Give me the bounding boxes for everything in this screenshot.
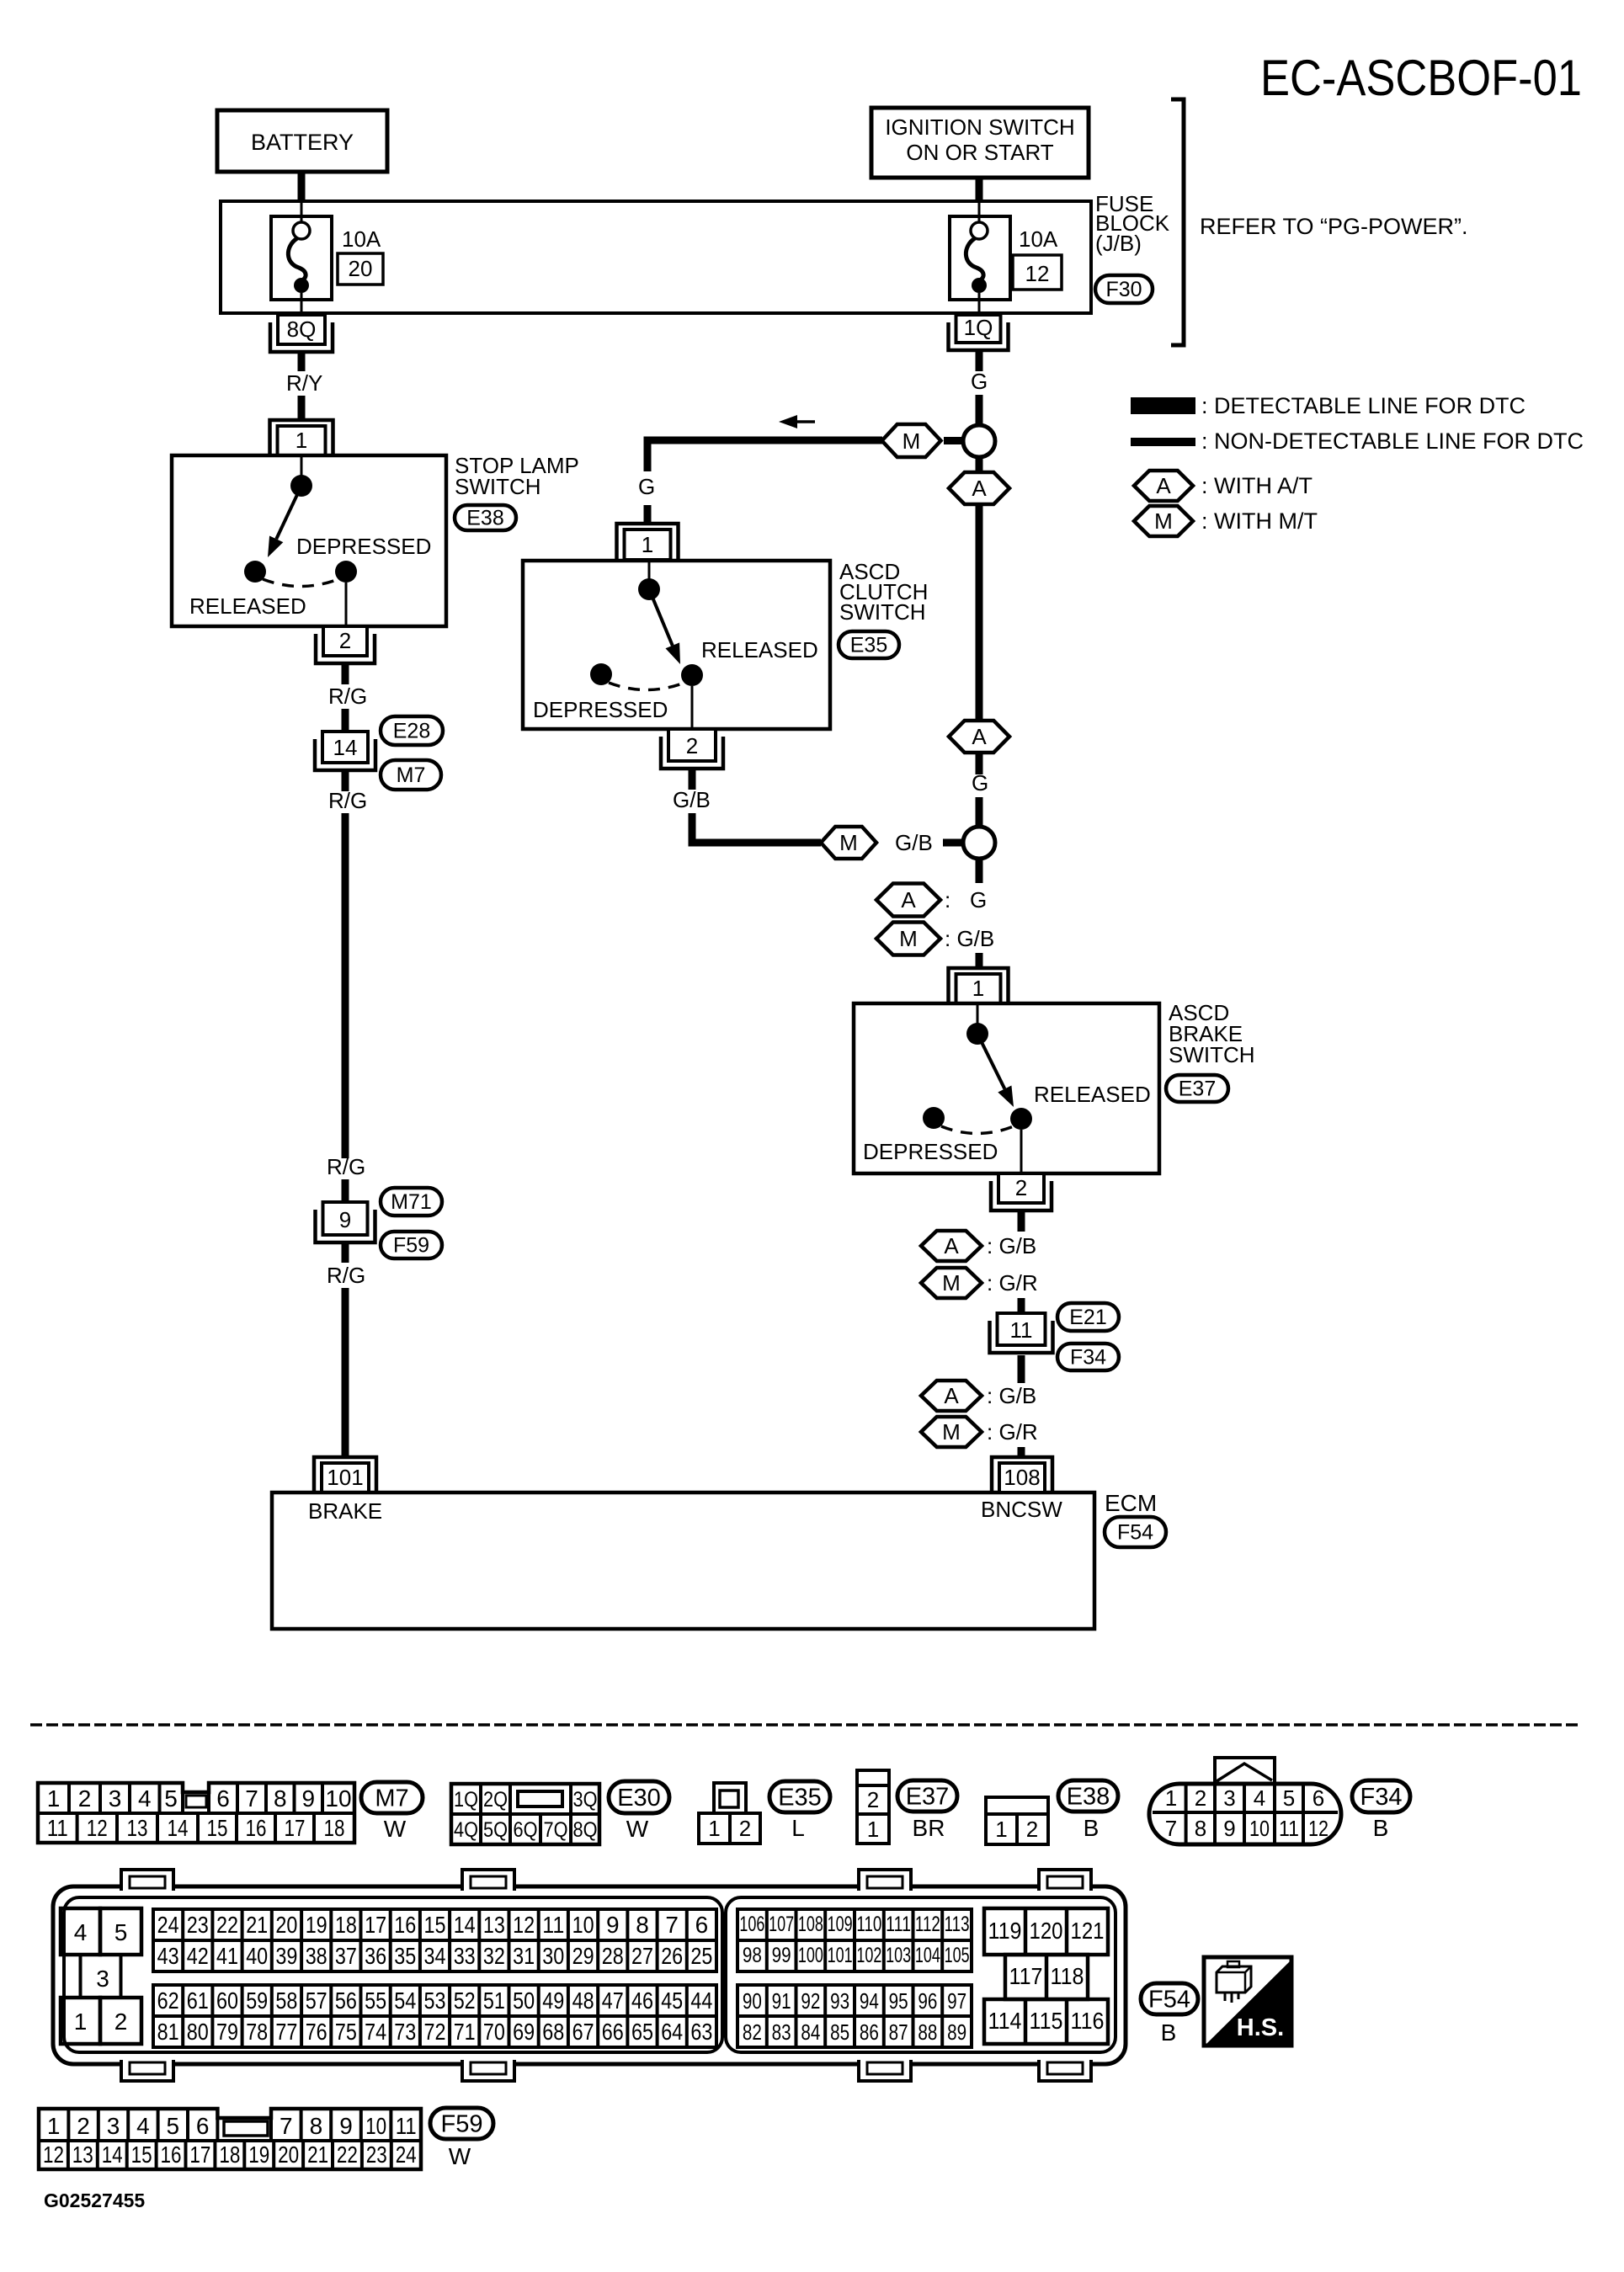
svg-text:34: 34 xyxy=(424,1943,446,1969)
svg-text:112: 112 xyxy=(915,1913,940,1936)
svg-text:11: 11 xyxy=(1010,1317,1033,1343)
hexagon M wire G/R row 2 xyxy=(921,1417,1038,1447)
wire corner to M hexagon xyxy=(647,440,882,471)
svg-text:97: 97 xyxy=(947,1988,966,2014)
svg-text:M: M xyxy=(942,1419,961,1445)
svg-text:1: 1 xyxy=(972,976,984,1001)
svg-text:W: W xyxy=(626,1816,649,1842)
svg-text:120: 120 xyxy=(1030,1918,1063,1944)
connector F30 oval xyxy=(1095,275,1153,303)
svg-text:99: 99 xyxy=(772,1944,791,1967)
svg-text:R/G: R/G xyxy=(328,788,367,813)
wire below connector 9 xyxy=(342,1242,349,1263)
hexagon M/T on branch xyxy=(882,424,941,457)
H.S. mark xyxy=(1204,1957,1291,2046)
stop lamp switch box E38 xyxy=(172,455,446,626)
svg-text:H.S.: H.S. xyxy=(1237,2014,1284,2041)
svg-text:8: 8 xyxy=(1195,1816,1206,1841)
svg-text:57: 57 xyxy=(306,1987,327,2014)
svg-text:1Q: 1Q xyxy=(964,315,993,340)
svg-text:38: 38 xyxy=(306,1943,327,1969)
svg-text:12: 12 xyxy=(87,1815,108,1841)
svg-text:3Q: 3Q xyxy=(573,1788,598,1812)
svg-text:110: 110 xyxy=(856,1913,881,1936)
ASCD brake switch internals xyxy=(863,1003,1151,1173)
svg-text:64: 64 xyxy=(661,2019,683,2045)
hexagon M with wire color G/B xyxy=(876,923,994,955)
svg-text:13: 13 xyxy=(127,1815,148,1841)
svg-text:9: 9 xyxy=(339,1207,351,1232)
ASCD clutch switch label xyxy=(839,559,928,625)
wire below brake connector 2 xyxy=(1018,1210,1025,1232)
wire below hexagon A 2 xyxy=(976,753,983,774)
svg-text:10A: 10A xyxy=(342,226,381,252)
flow arrow xyxy=(779,415,815,428)
svg-text:F54: F54 xyxy=(1148,1986,1190,2013)
svg-text:E35: E35 xyxy=(778,1784,822,1811)
hexagon M/T lower branch xyxy=(821,827,876,859)
svg-text:G02527455: G02527455 xyxy=(44,2190,145,2211)
svg-text:114: 114 xyxy=(988,2008,1022,2034)
svg-text:43: 43 xyxy=(157,1943,179,1969)
svg-text:66: 66 xyxy=(602,2019,624,2045)
svg-text:10: 10 xyxy=(572,1912,594,1938)
svg-text:R/G: R/G xyxy=(327,1263,365,1288)
wire 8Q down xyxy=(298,350,306,371)
svg-text:18: 18 xyxy=(335,1912,357,1938)
wire into ECM BNCSW pin xyxy=(1018,1447,1025,1458)
svg-text:SWITCH: SWITCH xyxy=(455,474,541,499)
svg-text:82: 82 xyxy=(743,2019,762,2045)
svg-text:48: 48 xyxy=(572,1987,594,2014)
connector 8Q xyxy=(270,315,333,352)
svg-text:IGNITION SWITCH: IGNITION SWITCH xyxy=(885,114,1074,140)
svg-text:6: 6 xyxy=(1313,1785,1324,1811)
svg-text:1: 1 xyxy=(296,428,307,453)
svg-text:94: 94 xyxy=(860,1988,879,2014)
svg-text:2Q: 2Q xyxy=(483,1788,508,1812)
svg-text:M7: M7 xyxy=(375,1785,408,1812)
long wire down right side xyxy=(976,504,983,721)
svg-text:G: G xyxy=(970,887,987,913)
svg-text:106: 106 xyxy=(739,1913,764,1936)
svg-text:8: 8 xyxy=(310,2113,323,2139)
connector E35 oval xyxy=(769,1781,830,1812)
svg-text:101: 101 xyxy=(828,1944,853,1967)
svg-text:72: 72 xyxy=(424,2019,446,2045)
wire G into clutch connector xyxy=(644,505,652,525)
svg-text:15: 15 xyxy=(131,2142,152,2168)
fuse 10A 12 xyxy=(950,203,1062,313)
svg-text:7: 7 xyxy=(665,1912,679,1938)
svg-text:83: 83 xyxy=(772,2019,791,2045)
stop lamp switch internals xyxy=(189,455,431,626)
legend with A/T xyxy=(1134,471,1313,501)
svg-text:53: 53 xyxy=(424,1987,446,2014)
svg-text:1: 1 xyxy=(1165,1785,1177,1811)
connector 9 M71/F59 xyxy=(316,1202,375,1242)
svg-text:32: 32 xyxy=(483,1943,505,1969)
svg-text:47: 47 xyxy=(602,1987,624,2014)
svg-text:22: 22 xyxy=(337,2142,358,2168)
svg-text:: G/R: : G/R xyxy=(987,1270,1038,1296)
svg-text:11: 11 xyxy=(542,1912,564,1938)
wire clutch to M hexagon lower xyxy=(692,813,821,843)
svg-text:10A: 10A xyxy=(1019,226,1058,252)
svg-text:67: 67 xyxy=(572,2019,594,2045)
svg-text:100: 100 xyxy=(798,1944,823,1967)
svg-text:17: 17 xyxy=(365,1912,386,1938)
connector 1 ASCD brake switch xyxy=(949,968,1009,1003)
connector E38 pinout xyxy=(986,1797,1048,1844)
svg-text:9: 9 xyxy=(1223,1816,1235,1841)
ECM right grid pins 82-113 xyxy=(737,1909,972,2047)
svg-text:79: 79 xyxy=(216,2019,238,2045)
svg-text:1: 1 xyxy=(708,1816,720,1841)
wire R/G segment xyxy=(342,709,349,732)
svg-text:12: 12 xyxy=(1025,261,1050,286)
svg-text:55: 55 xyxy=(365,1987,386,2014)
svg-text:10: 10 xyxy=(325,1785,351,1812)
svg-text:40: 40 xyxy=(246,1943,268,1969)
svg-text:14: 14 xyxy=(454,1912,476,1938)
svg-text:A: A xyxy=(972,476,987,501)
svg-text:7: 7 xyxy=(280,2113,293,2139)
connector E37 pinout xyxy=(857,1770,889,1844)
svg-text:14: 14 xyxy=(168,1815,189,1841)
svg-text:1: 1 xyxy=(867,1817,879,1842)
svg-text:23: 23 xyxy=(187,1912,209,1938)
svg-text:F59: F59 xyxy=(393,1234,429,1258)
svg-text:49: 49 xyxy=(542,1987,564,2014)
svg-text:16: 16 xyxy=(394,1912,416,1938)
svg-text:117: 117 xyxy=(1009,1963,1043,1989)
svg-text:92: 92 xyxy=(801,1988,820,2014)
svg-text:8: 8 xyxy=(636,1912,649,1938)
connector 2 stop lamp switch xyxy=(316,626,375,663)
svg-text:E37: E37 xyxy=(1179,1077,1216,1101)
svg-text:108: 108 xyxy=(1004,1465,1040,1490)
svg-text:2: 2 xyxy=(739,1816,751,1841)
svg-text:3: 3 xyxy=(1223,1785,1235,1811)
connector M71 oval xyxy=(381,1188,442,1216)
hexagon M wire G/R row 1 xyxy=(921,1268,1038,1298)
svg-text:1: 1 xyxy=(995,1817,1007,1842)
svg-text:74: 74 xyxy=(365,2019,386,2045)
connector F34 oval xyxy=(1352,1780,1410,1812)
svg-text:51: 51 xyxy=(483,1987,505,2014)
svg-text:91: 91 xyxy=(772,1988,791,2014)
connector 1Q xyxy=(949,315,1009,350)
wire into junction 2 xyxy=(943,839,961,847)
wire into connector 9 xyxy=(342,1179,349,1202)
svg-text:6: 6 xyxy=(216,1785,230,1812)
svg-text:5: 5 xyxy=(1283,1785,1295,1811)
svg-text:119: 119 xyxy=(988,1918,1022,1944)
svg-text:BNCSW: BNCSW xyxy=(981,1497,1062,1522)
svg-text:W: W xyxy=(449,2143,471,2169)
svg-text:9: 9 xyxy=(606,1912,620,1938)
svg-text:15: 15 xyxy=(207,1815,228,1841)
svg-text:E37: E37 xyxy=(906,1783,950,1810)
svg-text:DEPRESSED: DEPRESSED xyxy=(533,697,668,722)
svg-text:69: 69 xyxy=(513,2019,535,2045)
svg-text:2: 2 xyxy=(1015,1175,1027,1200)
svg-text:98: 98 xyxy=(743,1944,762,1967)
svg-text:113: 113 xyxy=(945,1913,970,1936)
svg-text:G/B: G/B xyxy=(895,830,933,855)
svg-text:: G/B: : G/B xyxy=(987,1233,1036,1258)
connector F59 oval xyxy=(381,1232,442,1258)
svg-text:A: A xyxy=(944,1383,959,1408)
svg-text::: : xyxy=(945,887,950,913)
svg-text:R/G: R/G xyxy=(327,1154,365,1179)
svg-text:50: 50 xyxy=(513,1987,535,2014)
svg-text:15: 15 xyxy=(424,1912,446,1938)
svg-text:116: 116 xyxy=(1071,2008,1105,2034)
svg-text:F59: F59 xyxy=(441,2110,483,2137)
svg-text:11: 11 xyxy=(1279,1816,1299,1841)
svg-text:8: 8 xyxy=(274,1785,287,1812)
svg-text:2: 2 xyxy=(114,2009,128,2035)
wire ignition switch to fuse block xyxy=(976,178,983,203)
stop lamp switch label xyxy=(455,453,579,499)
legend with M/T xyxy=(1134,506,1318,536)
svg-text:R/Y: R/Y xyxy=(286,370,322,396)
svg-text:1Q: 1Q xyxy=(454,1788,478,1812)
svg-text:B: B xyxy=(1373,1815,1389,1841)
wire G xyxy=(976,395,983,426)
svg-text:24: 24 xyxy=(157,1912,179,1938)
svg-text:35: 35 xyxy=(394,1943,416,1969)
svg-text:36: 36 xyxy=(365,1943,386,1969)
svg-text:105: 105 xyxy=(945,1944,970,1967)
svg-text:96: 96 xyxy=(918,1988,937,2014)
svg-text:E38: E38 xyxy=(1067,1783,1110,1810)
svg-text:E35: E35 xyxy=(850,634,887,657)
connector 1 ASCD clutch switch xyxy=(617,524,679,560)
svg-text:B: B xyxy=(1084,1815,1100,1841)
svg-text:5: 5 xyxy=(167,2113,180,2139)
svg-text:77: 77 xyxy=(275,2019,297,2045)
svg-text:E38: E38 xyxy=(466,507,503,530)
svg-text:44: 44 xyxy=(690,1987,712,2014)
svg-text:F34: F34 xyxy=(1360,1784,1403,1811)
ECM connector F54 housing xyxy=(53,1870,1126,2081)
hexagon with A/T 1 xyxy=(949,472,1009,504)
svg-text:: WITH M/T: : WITH M/T xyxy=(1201,508,1318,534)
svg-text:111: 111 xyxy=(886,1913,911,1936)
connector E30 pinout xyxy=(451,1784,599,1844)
junction circle 1 xyxy=(963,425,995,457)
svg-text:R/G: R/G xyxy=(328,684,367,709)
svg-text:89: 89 xyxy=(947,2019,966,2045)
svg-text:BR: BR xyxy=(913,1815,945,1841)
svg-text:F30: F30 xyxy=(1105,278,1142,301)
svg-text:20: 20 xyxy=(278,2142,299,2168)
svg-text:10: 10 xyxy=(365,2113,386,2139)
svg-text:1: 1 xyxy=(74,2009,88,2035)
svg-text:121: 121 xyxy=(1071,1918,1105,1944)
separator dashed line xyxy=(30,1723,1581,1727)
svg-text:DEPRESSED: DEPRESSED xyxy=(296,534,431,559)
connector F54 oval xyxy=(1105,1517,1166,1547)
connector F59 oval xyxy=(430,2108,493,2139)
connector 1 stop lamp switch xyxy=(270,420,333,455)
svg-text:16: 16 xyxy=(161,2142,182,2168)
svg-text:SWITCH: SWITCH xyxy=(1169,1042,1255,1067)
svg-text:M: M xyxy=(942,1270,961,1296)
svg-text:5Q: 5Q xyxy=(483,1818,508,1842)
svg-text:107: 107 xyxy=(769,1913,794,1936)
svg-text:B: B xyxy=(1161,2019,1177,2046)
svg-text:85: 85 xyxy=(830,2019,849,2045)
svg-text:1: 1 xyxy=(47,1785,61,1812)
connector E21 oval xyxy=(1057,1303,1119,1331)
svg-text:8Q: 8Q xyxy=(287,317,317,342)
svg-text:ON OR START: ON OR START xyxy=(906,140,1053,165)
fuse 10A 20 xyxy=(271,203,383,313)
connector E35 oval xyxy=(839,631,899,658)
svg-text:61: 61 xyxy=(187,1987,209,2014)
svg-text:M: M xyxy=(899,926,918,951)
wire below connector 11 xyxy=(1018,1355,1025,1383)
svg-text:A: A xyxy=(1156,473,1171,498)
svg-text:A: A xyxy=(901,887,916,913)
svg-text:101: 101 xyxy=(327,1465,363,1490)
svg-text:20: 20 xyxy=(275,1912,297,1938)
svg-text:: WITH A/T: : WITH A/T xyxy=(1201,473,1313,498)
connector F54 oval bottom xyxy=(1141,1983,1198,2014)
wire below connector 14 xyxy=(342,770,349,791)
svg-text:102: 102 xyxy=(856,1944,881,1967)
svg-text:1: 1 xyxy=(642,532,653,557)
svg-text:27: 27 xyxy=(631,1943,653,1969)
svg-text:REFER TO “PG-POWER”.: REFER TO “PG-POWER”. xyxy=(1200,214,1468,239)
svg-text:59: 59 xyxy=(246,1987,268,2014)
svg-text:M: M xyxy=(839,830,858,855)
svg-text:E30: E30 xyxy=(617,1785,661,1812)
svg-text:80: 80 xyxy=(187,2019,209,2045)
svg-text:87: 87 xyxy=(889,2019,908,2045)
svg-text:29: 29 xyxy=(572,1943,594,1969)
ECM box xyxy=(272,1492,1094,1629)
svg-text:17: 17 xyxy=(285,1815,306,1841)
svg-text:62: 62 xyxy=(157,1987,179,2014)
connector 108 ECM BNCSW xyxy=(992,1457,1052,1492)
svg-text:5: 5 xyxy=(114,1919,128,1945)
ASCD brake switch box E37 xyxy=(854,1003,1159,1173)
svg-text:90: 90 xyxy=(743,1988,762,2014)
svg-text:2: 2 xyxy=(867,1787,879,1812)
svg-text:ECM: ECM xyxy=(1105,1490,1157,1516)
hexagon A wire G/B row 1 xyxy=(921,1231,1036,1261)
wire to junction 2 xyxy=(976,797,983,827)
svg-text:12: 12 xyxy=(43,2142,64,2168)
svg-text:58: 58 xyxy=(275,1987,297,2014)
connector 11 E21/F34 xyxy=(990,1313,1053,1353)
hexagon A with wire color G xyxy=(876,884,987,917)
svg-text:12: 12 xyxy=(1308,1816,1328,1841)
svg-text:3: 3 xyxy=(109,1785,122,1812)
legend detectable line xyxy=(1131,393,1525,418)
wire battery to fuse block xyxy=(298,172,306,203)
svg-text:104: 104 xyxy=(915,1944,940,1967)
svg-text:BRAKE: BRAKE xyxy=(308,1498,382,1524)
svg-text:SWITCH: SWITCH xyxy=(839,599,926,625)
svg-text:RELEASED: RELEASED xyxy=(189,593,306,619)
svg-text:DEPRESSED: DEPRESSED xyxy=(863,1139,998,1164)
svg-text:76: 76 xyxy=(306,2019,327,2045)
svg-text:M71: M71 xyxy=(391,1190,432,1214)
svg-text:: NON-DETECTABLE LINE FOR DTC: : NON-DETECTABLE LINE FOR DTC xyxy=(1201,428,1584,454)
svg-text:37: 37 xyxy=(335,1943,357,1969)
svg-text:E28: E28 xyxy=(393,720,430,743)
svg-text:11: 11 xyxy=(47,1815,68,1841)
svg-text:86: 86 xyxy=(860,2019,879,2045)
svg-text:42: 42 xyxy=(187,1943,209,1969)
svg-text:16: 16 xyxy=(246,1815,267,1841)
svg-text:13: 13 xyxy=(483,1912,505,1938)
svg-text:4Q: 4Q xyxy=(454,1818,478,1842)
connector F34 oval xyxy=(1057,1344,1119,1370)
svg-text:3: 3 xyxy=(107,2113,120,2139)
connector 2 ASCD clutch switch xyxy=(661,729,723,769)
svg-text:13: 13 xyxy=(72,2142,93,2168)
svg-text:4: 4 xyxy=(136,2113,150,2139)
svg-text:4: 4 xyxy=(74,1919,88,1945)
svg-text:30: 30 xyxy=(542,1943,564,1969)
svg-text:25: 25 xyxy=(690,1943,712,1969)
svg-text:95: 95 xyxy=(889,1988,908,2014)
svg-text:: G/B: : G/B xyxy=(987,1383,1036,1408)
svg-text:: G/B: : G/B xyxy=(945,926,994,951)
connector 101 ECM BRAKE xyxy=(314,1457,376,1492)
connector E37 oval xyxy=(1166,1075,1228,1102)
ECM grid pins 114-121 xyxy=(984,1908,1108,2044)
svg-text:9: 9 xyxy=(339,2113,353,2139)
svg-text:109: 109 xyxy=(828,1913,853,1936)
svg-text:70: 70 xyxy=(483,2019,505,2045)
svg-text:78: 78 xyxy=(246,2019,268,2045)
svg-text:G: G xyxy=(638,474,655,499)
svg-text:M: M xyxy=(903,428,921,454)
svg-text:31: 31 xyxy=(513,1943,535,1969)
connector E38 oval xyxy=(1058,1780,1118,1812)
svg-text:E21: E21 xyxy=(1069,1306,1106,1329)
connector 2 ASCD brake switch xyxy=(991,1173,1052,1210)
svg-text:81: 81 xyxy=(157,2019,179,2045)
svg-text:BATTERY: BATTERY xyxy=(251,130,354,155)
ignition switch ON OR START xyxy=(871,108,1089,178)
svg-text:2: 2 xyxy=(1195,1785,1206,1811)
wire below junction 1 xyxy=(976,456,983,473)
svg-text:2: 2 xyxy=(686,733,698,758)
svg-text:7: 7 xyxy=(245,1785,258,1812)
svg-text:6Q: 6Q xyxy=(514,1818,538,1842)
svg-text:RELEASED: RELEASED xyxy=(1034,1082,1151,1107)
svg-text:2: 2 xyxy=(78,1785,92,1812)
svg-text:7Q: 7Q xyxy=(544,1818,568,1842)
svg-text:2: 2 xyxy=(339,628,351,653)
svg-text:23: 23 xyxy=(366,2142,387,2168)
wire into brake switch connector xyxy=(976,953,983,968)
connector E35 pinout xyxy=(699,1783,760,1844)
connector E30 oval xyxy=(609,1781,669,1813)
svg-text:45: 45 xyxy=(661,1987,683,2014)
ASCD brake switch label xyxy=(1169,1000,1255,1067)
svg-text:19: 19 xyxy=(248,2142,269,2168)
